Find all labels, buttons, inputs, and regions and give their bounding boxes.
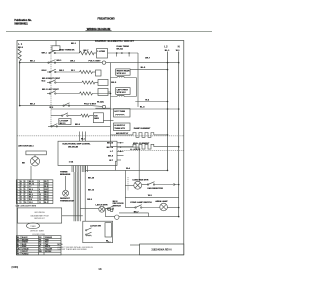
svg-text:W-1(S): W-1(S): [97, 102, 104, 104]
svg-text:BK-10: BK-10: [107, 143, 114, 145]
svg-text:8: 8: [17, 199, 18, 201]
hot tube box: [114, 109, 131, 117]
svg-text:BK-2: BK-2: [30, 103, 36, 105]
svg-text:GREEN: GREEN: [22, 242, 29, 244]
svg-text:BK-28: BK-28: [88, 178, 95, 180]
svg-text:GN-1: GN-1: [45, 184, 49, 186]
svg-text:WH-1: WH-1: [42, 53, 48, 55]
svg-text:8: 8: [25, 197, 26, 199]
resistor y93: [79, 92, 92, 95]
defrost thermostat circle: [63, 190, 69, 196]
switch y93: [47, 93, 50, 95]
svg-text:12: 12: [39, 199, 41, 201]
svg-text:1: 1: [17, 181, 18, 183]
rung y82.5: [47, 82, 50, 84]
svg-text:N: N: [178, 44, 180, 48]
header rule: [6, 31, 212, 33]
air door motor: [30, 157, 39, 166]
svg-text:13: 13: [39, 202, 41, 204]
svg-text:WTR VLV: WTR VLV: [117, 73, 127, 75]
svg-text:W-1: W-1: [45, 194, 48, 196]
fan left stub: [125, 184, 134, 186]
svg-text:THIS UNIT PLACED AND GROUNDED: THIS UNIT PLACED AND GROUNDED: [57, 248, 87, 251]
svg-text:BK-1: BK-1: [30, 61, 36, 63]
svg-text:1 LITER: 1 LITER: [97, 51, 105, 53]
svg-text:BK-1: BK-1: [71, 43, 77, 45]
svg-text:HEAT TERM BK: HEAT TERM BK: [59, 48, 75, 51]
svg-text:AIR SUPPLY: AIR SUPPLY: [116, 132, 129, 135]
svg-text:7: 7: [39, 186, 40, 188]
element 1: [111, 134, 134, 136]
svg-text:2: 2: [25, 181, 26, 183]
switch rung1: [49, 52, 50, 53]
title underline: [86, 30, 112, 32]
svg-text:POLY 2 BKT: POLY 2 BKT: [84, 103, 97, 105]
stub down from dots: [116, 53, 118, 57]
left frnt wtr vlv: [116, 88, 130, 95]
solenoid coil: [111, 76, 137, 77]
L2 bus: [167, 52, 169, 171]
svg-text:L2: L2: [164, 44, 168, 48]
rung right y101.5: [135, 101, 167, 103]
svg-text:5: 5: [25, 189, 26, 191]
svg-text:W-3: W-3: [29, 191, 32, 193]
svg-text:BK-7: BK-7: [84, 50, 90, 52]
comb below control box: [71, 166, 73, 173]
svg-text:YELLOW: YELLOW: [45, 249, 52, 251]
svg-text:E: E: [21, 191, 22, 193]
svg-text:BK-6: BK-6: [75, 124, 81, 126]
svg-text:BK-9: BK-9: [29, 189, 33, 191]
svg-text:BLUE: BLUE: [22, 244, 26, 246]
svg-text:LBL: LBL: [17, 249, 20, 251]
svg-text:BK-2: BK-2: [29, 194, 33, 196]
hi supply box: [114, 123, 131, 131]
svg-text:ELECTRONIC DMP CONTRL: ELECTRONIC DMP CONTRL: [63, 144, 92, 146]
door dashed line: [50, 45, 52, 127]
dashed divider: [17, 135, 184, 137]
element 2: [111, 146, 134, 148]
box liter: [93, 113, 103, 123]
svg-text:BK: BK: [22, 163, 26, 165]
svg-text:3: 3: [17, 186, 18, 188]
svg-text:DEFROST TIMER: DEFROST TIMER: [30, 230, 45, 232]
svg-text:GN-2: GN-2: [42, 70, 48, 72]
svg-text:BK-7: BK-7: [134, 211, 140, 213]
rung2 right: [106, 62, 179, 64]
svg-text:OR-2: OR-2: [87, 199, 93, 201]
resistor y72: [79, 70, 92, 73]
resistor R defrost: [79, 51, 94, 55]
svg-text:5: 5: [17, 191, 18, 193]
svg-text:L-7: L-7: [29, 186, 32, 188]
svg-text:COND FAN MTR: COND FAN MTR: [132, 179, 148, 182]
svg-text:BR-2 RIGHT FRNT: BR-2 RIGHT FRNT: [42, 78, 61, 80]
fan circuit wire to L2: [86, 169, 168, 171]
lamp: [160, 203, 168, 211]
svg-text:6: 6: [39, 184, 40, 186]
svg-text:POLY 2 BKT: POLY 2 BKT: [89, 60, 102, 62]
svg-text:BK-1: BK-1: [45, 199, 49, 201]
svg-text:BK-7A: BK-7A: [107, 146, 114, 149]
svg-text:WHT/BK: WHT/BK: [45, 251, 52, 253]
svg-text:MKR: MKR: [94, 118, 99, 120]
rung y72: [47, 71, 50, 73]
title block: [140, 244, 184, 255]
svg-text:W-7: W-7: [45, 181, 48, 183]
svg-text:THERMOSTAT: THERMOSTAT: [60, 200, 75, 203]
svg-text:BK-5A: BK-5A: [117, 48, 124, 51]
note box left: [18, 208, 62, 223]
svg-text:BK-12: BK-12: [88, 190, 95, 192]
svg-text:10: 10: [39, 194, 41, 196]
switch on rung y126.4: [51, 126, 52, 127]
svg-text:CAB CONN CAVITY WIRE: CAB CONN CAVITY WIRE: [16, 204, 37, 207]
svg-text:BR-2: BR-2: [45, 191, 49, 193]
svg-text:DB-DB-4B: DB-DB-4B: [68, 146, 79, 149]
N bus: [178, 52, 180, 217]
svg-text:BK-5: BK-5: [111, 82, 117, 84]
svg-text:OR-1: OR-1: [70, 60, 76, 62]
svg-text:YL: YL: [39, 249, 41, 251]
vertical feeder: [137, 53, 139, 107]
switch y105: [63, 105, 64, 106]
svg-text:HOT TUBE: HOT TUBE: [114, 111, 125, 113]
latch sw box: [83, 221, 113, 243]
svg-text:BK-9: BK-9: [108, 156, 114, 158]
svg-text:J: J: [21, 202, 22, 204]
terminal box rung y82.5: [98, 80, 108, 86]
svg-text:DIAGRAM PART FROM: DIAGRAM PART FROM: [30, 214, 49, 217]
svg-text:WHITE: WHITE: [45, 246, 50, 248]
dashed divider right: [118, 149, 184, 151]
small box on door top: [52, 46, 60, 51]
bottom wire: [105, 216, 114, 218]
svg-text:BROWN: BROWN: [22, 239, 29, 241]
svg-text:BR-1 LEFT FRNT: BR-1 LEFT FRNT: [42, 89, 59, 91]
svg-text:BL-1: BL-1: [45, 202, 49, 204]
svg-text:9: 9: [39, 191, 40, 193]
rung1 wire right: [94, 52, 97, 54]
svg-text:1 8A: 1 8A: [69, 160, 74, 163]
svg-text:BK-11: BK-11: [60, 123, 67, 125]
connector circle: [102, 61, 105, 64]
svg-text:8: 8: [39, 189, 40, 191]
pin stubs: [117, 142, 124, 144]
svg-text:FRS26TS6CW3: FRS26TS6CW3: [98, 17, 116, 20]
svg-text:3: 3: [25, 184, 26, 186]
CL circle: [115, 215, 119, 219]
svg-text:BK-6: BK-6: [45, 197, 49, 199]
svg-text:GROUNDING: GROUNDING: [34, 212, 45, 214]
connector grid table: [16, 180, 53, 204]
svg-text:OR-7: OR-7: [145, 57, 151, 59]
electronic damper control box: [58, 141, 117, 165]
svg-text:NOTE:: NOTE:: [57, 244, 63, 246]
svg-text:SWITCH: SWITCH: [113, 206, 122, 208]
wire box to top border: [55, 41, 57, 46]
fan branch vertical: [124, 170, 126, 207]
svg-text:WIRING DIAGRAM: WIRING DIAGRAM: [87, 27, 111, 31]
area lamp circuit: [125, 196, 178, 198]
rung y115.6: [51, 115, 62, 117]
rung3 to L2: [130, 69, 167, 71]
svg-text:PURPLE: PURPLE: [22, 253, 28, 255]
svg-text:DAMPER <ELEMENTS> CIRCUIT: DAMPER <ELEMENTS> CIRCUIT: [95, 40, 134, 43]
middle vertical: [110, 63, 112, 147]
svg-text:FAN RESISTOR: FAN RESISTOR: [148, 187, 164, 190]
wires into control box: [79, 132, 81, 142]
svg-text:BL-5: BL-5: [45, 186, 49, 188]
wire y108: [95, 107, 110, 109]
svg-text:AIR DOOR 4B-1: AIR DOOR 4B-1: [18, 145, 34, 148]
rung1 wire: [56, 52, 80, 54]
svg-text:7: 7: [25, 194, 26, 196]
svg-text:OR-7: OR-7: [45, 189, 49, 191]
fusible link zigzag on L1: [18, 49, 21, 61]
svg-text:TIMER: TIMER: [30, 226, 36, 228]
connector chevron: [174, 183, 176, 185]
svg-text:6: 6: [17, 194, 18, 196]
dashed fan enclosure hint: [127, 177, 129, 191]
switch rung2: [48, 62, 49, 63]
svg-text:L 1: L 1: [18, 42, 22, 46]
svg-text:BR-1: BR-1: [57, 60, 63, 62]
dispenser box: [59, 119, 71, 125]
svg-text:VIOLET: VIOLET: [22, 251, 28, 253]
wire from ground box to latch box: [62, 215, 83, 217]
fan to N: [142, 184, 148, 186]
svg-text:10: 10: [25, 202, 27, 204]
defrost timer oval: [26, 223, 39, 229]
svg-text:6: 6: [25, 191, 26, 193]
svg-text:5: 5: [39, 181, 40, 183]
svg-text:5995380821: 5995380821: [14, 23, 28, 26]
outer schematic border: [17, 41, 184, 255]
svg-text:W-8: W-8: [108, 242, 111, 244]
svg-text:BK-5: BK-5: [29, 197, 33, 199]
svg-text:2: 2: [17, 184, 18, 186]
svg-text:BL: BL: [17, 244, 19, 246]
svg-text:BK-10: BK-10: [29, 181, 34, 183]
svg-text:AREA LAMP: AREA LAMP: [155, 200, 168, 203]
right rear wtr vlv box: [116, 69, 130, 75]
wire y212.9: [119, 212, 149, 214]
rung y105.6: [20, 105, 91, 107]
svg-text:318254506A REV-0: 318254506A REV-0: [151, 248, 172, 251]
solenoid coil 2: [111, 95, 137, 96]
svg-text:9: 9: [25, 199, 26, 201]
svg-text:COND LAMP SWITCH: COND LAMP SWITCH: [130, 201, 152, 204]
svg-text:WTR VLV: WTR VLV: [117, 92, 127, 94]
svg-text:F: F: [21, 194, 22, 196]
small box 1 liter: [98, 89, 108, 96]
rung2 wire: [20, 62, 103, 64]
svg-text:LT BLUE: LT BLUE: [22, 249, 29, 251]
svg-text:7: 7: [17, 197, 18, 199]
svg-text:GN-1: GN-1: [59, 70, 65, 72]
svg-text:LATCH SW: LATCH SW: [90, 225, 101, 228]
wire from top border: [78, 41, 80, 54]
latch switch: [105, 208, 108, 210]
L1 bus: [19, 61, 21, 106]
svg-text:TUBE HTR: TUBE HTR: [114, 128, 125, 130]
svg-text:DAMP ELEMENT: DAMP ELEMENT: [134, 127, 151, 130]
rung y109: [51, 108, 179, 110]
svg-text:SERVICE KIT: SERVICE KIT: [34, 218, 44, 220]
cond box: [105, 223, 112, 237]
node dots rung1: [116, 52, 118, 54]
svg-text:OR-1: OR-1: [29, 202, 33, 204]
air door vane: [26, 151, 46, 155]
svg-text:9: 9: [17, 202, 18, 204]
svg-text:11: 11: [39, 197, 41, 199]
svg-text:(0403): (0403): [12, 266, 19, 269]
small box mid: [97, 49, 108, 59]
svg-text:13: 13: [98, 267, 102, 271]
svg-text:BREAKER: BREAKER: [60, 173, 71, 176]
comb continuation: [73, 172, 75, 221]
wire y120: [103, 119, 113, 121]
terminal box rung y72: [96, 70, 102, 76]
svg-text:BK-5: BK-5: [18, 47, 24, 49]
rung y126.4: [48, 125, 111, 127]
